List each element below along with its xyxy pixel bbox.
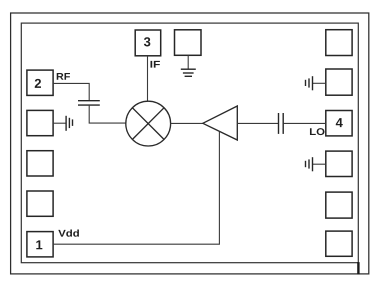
ground (right R2, pointing left)	[306, 76, 326, 90]
pad left plain A	[27, 151, 53, 176]
ground (top, pointing down)	[181, 55, 196, 76]
wire mixer to amplifier	[171, 122, 204, 124]
pad right R1	[326, 30, 352, 56]
wire amplifier to capacitor C2	[237, 122, 278, 124]
inner frame	[21, 23, 358, 274]
wire IF: pad3 to mixer	[147, 56, 149, 102]
label LO	[310, 128, 325, 135]
wire RF: pad2 to capacitor C1	[54, 83, 89, 100]
wire Vdd: pad1 to amplifier	[53, 132, 219, 245]
pad left gnd-cap	[27, 110, 53, 135]
pad left plain B	[27, 191, 53, 216]
mixer U1 (circle with X)	[126, 101, 171, 146]
wire capacitor C1 to mixer	[89, 106, 126, 124]
amplifier A1 (triangle pointing left)	[203, 106, 238, 140]
capacitor C1 (RF, horizontal plates)	[78, 101, 100, 105]
pad 3 (IF)	[135, 30, 161, 56]
pad right R4 gnd-cap	[326, 151, 352, 176]
capacitor C2 (LO, vertical plates)	[279, 113, 284, 134]
label RF	[57, 73, 70, 80]
pad right R2 gnd-cap	[326, 69, 352, 95]
pad 4 (LO)	[326, 111, 352, 136]
pad 2 (RF)	[27, 70, 53, 95]
label IF	[151, 61, 160, 68]
pad top gnd	[175, 30, 202, 56]
pad 1 (Vdd)	[27, 232, 53, 257]
label Vdd	[58, 230, 79, 237]
pad right R5	[326, 192, 352, 218]
ground (right R4, pointing left)	[306, 157, 326, 171]
wire capacitor C2 to pad 4	[284, 122, 326, 124]
pad right R6	[326, 231, 352, 256]
ground (left, pointing right)	[53, 116, 73, 131]
